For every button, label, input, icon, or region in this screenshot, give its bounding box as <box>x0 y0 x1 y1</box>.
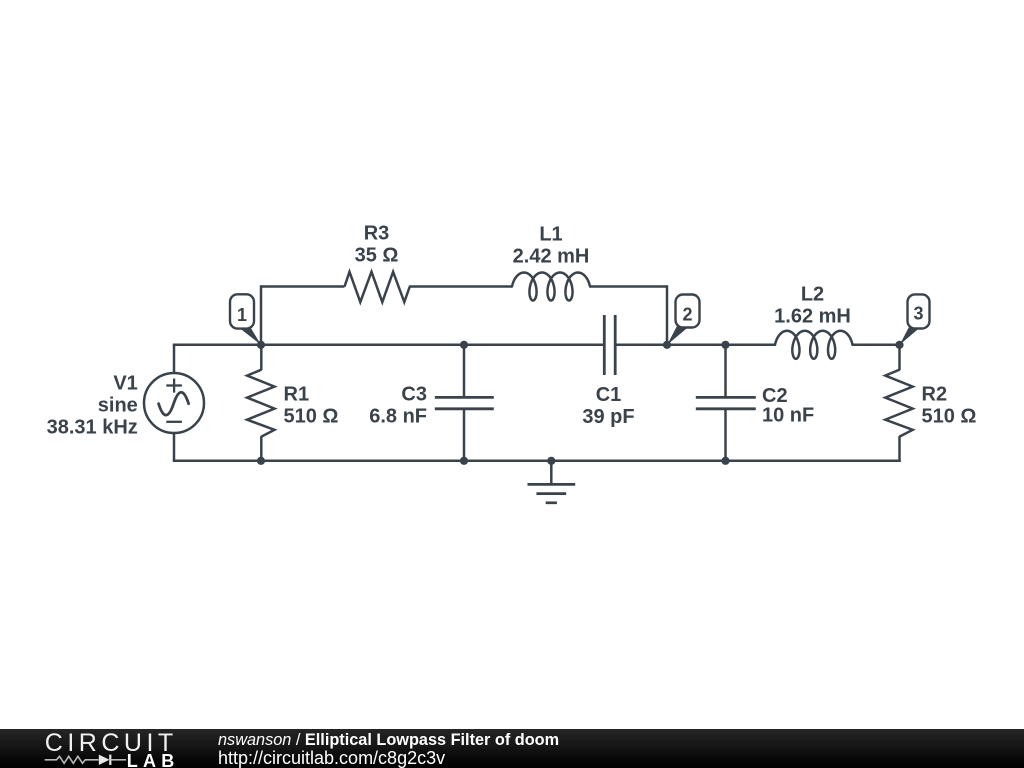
inductor L1 <box>512 273 590 301</box>
wire main row L2 to node 3 <box>853 344 900 347</box>
junction C2 bottom <box>721 457 729 465</box>
junction node 2 <box>663 341 671 349</box>
svg-text:1.62 mH: 1.62 mH <box>774 306 851 328</box>
wire bottom rail <box>173 460 901 463</box>
capacitor C1 <box>603 315 606 375</box>
svg-text:38.31 kHz: 38.31 kHz <box>47 417 138 439</box>
svg-text:510 Ω: 510 Ω <box>922 406 977 428</box>
svg-text:L2: L2 <box>801 284 824 306</box>
svg-text:6.8 nF: 6.8 nF <box>369 406 427 428</box>
svg-text:R3: R3 <box>364 223 390 245</box>
svg-text:C1: C1 <box>596 384 622 406</box>
resistor R3 <box>345 272 410 302</box>
voltage source V1 <box>144 373 204 433</box>
junction ground <box>547 457 555 465</box>
wire R2 bottom lead <box>898 436 901 462</box>
logo squiggle resistor-diode <box>45 756 99 763</box>
footer title <box>218 731 559 750</box>
svg-text:10 nF: 10 nF <box>762 405 814 427</box>
ground <box>528 461 576 503</box>
resistor R1 <box>247 370 274 437</box>
junction node 3 <box>895 341 903 349</box>
svg-text:R1: R1 <box>284 384 310 406</box>
junction C3 top <box>460 341 468 349</box>
svg-text:3: 3 <box>913 304 923 324</box>
wire V1 bottom lead <box>173 433 176 461</box>
svg-text:R2: R2 <box>922 384 948 406</box>
wire top branch vertical at node 1 <box>260 285 263 345</box>
node 1 flag <box>230 294 261 345</box>
svg-text:1: 1 <box>237 305 247 325</box>
resistor R2 <box>885 370 912 437</box>
svg-text:510 Ω: 510 Ω <box>284 406 339 428</box>
capacitor C3 <box>463 345 466 398</box>
junction C2 top <box>721 341 729 349</box>
wire V1 top lead <box>173 345 176 374</box>
junction C3 bottom <box>460 457 468 465</box>
capacitor C2 <box>724 345 727 398</box>
CircuitLab logo <box>0 729 200 768</box>
svg-text:V1: V1 <box>113 372 137 394</box>
svg-text:2.42 mH: 2.42 mH <box>513 246 590 268</box>
wire R3 to L1 <box>409 285 512 288</box>
wire top branch vertical down to node 2 <box>666 285 669 345</box>
footer url <box>218 748 445 768</box>
svg-text:LAB: LAB <box>127 751 180 768</box>
svg-text:sine: sine <box>98 394 138 416</box>
svg-text:L1: L1 <box>539 224 562 246</box>
wire L1 to corner <box>590 285 667 288</box>
junction node 1 <box>257 341 265 349</box>
svg-text:2: 2 <box>682 304 692 324</box>
inductor L2 <box>775 331 853 359</box>
footer bar <box>0 729 1024 768</box>
svg-text:C3: C3 <box>401 384 427 406</box>
node 3 flag <box>900 294 930 344</box>
svg-text:35 Ω: 35 Ω <box>355 245 399 267</box>
junction R1 bottom <box>257 457 265 465</box>
wire main row V1 corner to C1 <box>173 344 605 347</box>
wire top branch horizontal left (node1 to R3) <box>261 285 345 288</box>
wire main row C1 to L2 <box>615 344 775 347</box>
svg-text:39 pF: 39 pF <box>582 406 634 428</box>
node 2 flag <box>667 295 699 345</box>
